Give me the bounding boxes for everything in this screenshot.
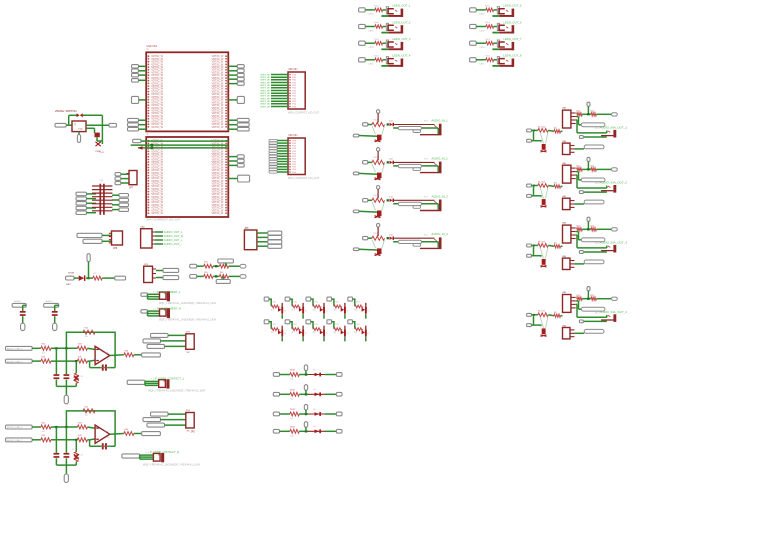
svg-text:4k7: 4k7 bbox=[313, 332, 316, 334]
svg-text:AUDIO_IN_1: AUDIO_IN_1 bbox=[431, 119, 448, 123]
svg-text:P14: P14 bbox=[595, 243, 598, 245]
svg-text:U$4/U$4: U$4/U$4 bbox=[288, 68, 298, 71]
svg-text:IC: IC bbox=[146, 48, 149, 51]
svg-text:R61K: R61K bbox=[290, 427, 296, 429]
svg-text:R2: R2 bbox=[554, 128, 556, 130]
svg-text:AUDIO_IN_4: AUDIO_IN_4 bbox=[431, 232, 448, 236]
svg-text:AUDIO_IN_2: AUDIO_IN_2 bbox=[431, 156, 448, 160]
svg-text:JP8: JP8 bbox=[113, 247, 118, 250]
svg-text:T1: T1 bbox=[540, 142, 542, 144]
svg-text:R51: R51 bbox=[294, 301, 297, 303]
svg-text:Q: Q bbox=[74, 123, 76, 126]
svg-text:R51: R51 bbox=[273, 301, 276, 303]
svg-text:JP7: JP7 bbox=[129, 187, 134, 190]
svg-text:LEDN_OUT_7: LEDN_OUT_7 bbox=[503, 37, 521, 41]
svg-text:T1: T1 bbox=[540, 326, 542, 328]
svg-text:CJRD: CJRD bbox=[368, 30, 374, 32]
svg-text:10k: 10k bbox=[290, 398, 293, 400]
svg-text:AUDIO_INA_OUT_2: AUDIO_INA_OUT_2 bbox=[600, 181, 628, 185]
svg-text:10k: 10k bbox=[85, 336, 88, 338]
svg-text:4k7: 4k7 bbox=[271, 332, 274, 334]
svg-text:CJRD: CJRD bbox=[479, 30, 485, 32]
svg-text:CJRD: CJRD bbox=[368, 64, 374, 66]
svg-text:25MHz 30PP/21: 25MHz 30PP/21 bbox=[55, 109, 77, 113]
svg-text:R51: R51 bbox=[273, 324, 276, 326]
svg-text:WGA_CONTACT_NO_OUT: WGA_CONTACT_NO_OUT bbox=[288, 177, 320, 180]
svg-text:LEDN_OUT_4: LEDN_OUT_4 bbox=[392, 54, 410, 58]
svg-text:T5: T5 bbox=[346, 310, 348, 312]
svg-text:R51: R51 bbox=[356, 301, 359, 303]
svg-text:R51: R51 bbox=[335, 301, 338, 303]
svg-text:P14: P14 bbox=[595, 128, 598, 130]
svg-text:4k7: 4k7 bbox=[354, 332, 357, 334]
svg-text:WQF_7-REV4V-A1_1ADCKMQF_7-REV4: WQF_7-REV4V-A1_1ADCKMQF_7-REV4V-A1_1A24 bbox=[159, 319, 217, 322]
svg-text:WQF_7-REV4V-A1_1ADCKMQF_7-REV4: WQF_7-REV4V-A1_1ADCKMQF_7-REV4V-A1_1A24 bbox=[148, 390, 206, 393]
svg-text:R51: R51 bbox=[335, 324, 338, 326]
svg-text:AGND1: AGND1 bbox=[46, 300, 54, 303]
svg-text:P_KNBP_MERT_1: P_KNBP_MERT_1 bbox=[157, 290, 181, 294]
svg-text:AGND1: AGND1 bbox=[14, 300, 22, 303]
svg-text:10k: 10k bbox=[290, 379, 293, 381]
svg-text:IC4A: IC4A bbox=[104, 352, 109, 355]
svg-text:T5: T5 bbox=[367, 333, 369, 335]
svg-text:4k7: 4k7 bbox=[271, 309, 274, 311]
svg-text:AUDIO_INA_OUT_3: AUDIO_INA_OUT_3 bbox=[600, 240, 628, 244]
svg-text:T5: T5 bbox=[326, 310, 328, 312]
svg-text:T5: T5 bbox=[346, 333, 348, 335]
svg-text:CJRD: CJRD bbox=[479, 64, 485, 66]
svg-text:P14: P14 bbox=[595, 312, 598, 314]
svg-text:10k: 10k bbox=[85, 415, 88, 417]
svg-text:IC: IC bbox=[146, 133, 149, 136]
svg-text:R51: R51 bbox=[315, 324, 318, 326]
svg-text:LEDN_OUT_8: LEDN_OUT_8 bbox=[503, 54, 521, 58]
svg-text:R12: R12 bbox=[591, 226, 594, 228]
svg-text:VDTXC_W: VDTXC_W bbox=[212, 212, 224, 215]
svg-text:R51: R51 bbox=[356, 324, 359, 326]
svg-text:OPA1679a: OPA1679a bbox=[101, 445, 112, 448]
svg-text:R12: R12 bbox=[591, 166, 594, 168]
svg-text:R12: R12 bbox=[591, 111, 594, 113]
svg-text:R1_P14: R1_P14 bbox=[538, 181, 545, 183]
svg-text:T1: T1 bbox=[540, 257, 542, 259]
svg-text:4k7: 4k7 bbox=[292, 309, 295, 311]
svg-text:CJRD: CJRD bbox=[479, 47, 485, 49]
svg-text:LEDN_OUT_6: LEDN_OUT_6 bbox=[503, 20, 521, 24]
svg-text:GMTR_BK: GMTR_BK bbox=[260, 82, 271, 84]
svg-text:SAA7_EXPRESS7_NO_OUT: SAA7_EXPRESS7_NO_OUT bbox=[146, 218, 180, 222]
svg-text:4k7: 4k7 bbox=[333, 332, 336, 334]
svg-text:P_KNBP_CONTACT_N: P_KNBP_CONTACT_N bbox=[150, 450, 179, 454]
svg-text:WQF_7-REV4V-A1_1ADCKMQF_7-REV4: WQF_7-REV4V-A1_1ADCKMQF_7-REV4V-A1_1A24 bbox=[143, 463, 201, 466]
svg-text:R1_P14: R1_P14 bbox=[538, 126, 545, 128]
svg-text:R2: R2 bbox=[554, 183, 556, 185]
svg-text:P_KNBP_CONTACT_1: P_KNBP_CONTACT_1 bbox=[155, 376, 184, 380]
svg-text:AUDIO_OUT_R: AUDIO_OUT_R bbox=[164, 234, 183, 238]
svg-text:R11: R11 bbox=[577, 226, 580, 228]
svg-text:AUDIO_IN_3: AUDIO_IN_3 bbox=[431, 194, 448, 198]
svg-text:VDTXC_W: VDTXC_W bbox=[151, 212, 163, 215]
svg-text:GMTR_BK: GMTR_BK bbox=[260, 90, 271, 92]
svg-text:AUDIO_LINE_2: AUDIO_LINE_2 bbox=[7, 360, 23, 363]
svg-text:GMTR_BK: GMTR_BK bbox=[260, 104, 271, 106]
svg-text:T5: T5 bbox=[367, 310, 369, 312]
svg-text:GMTR_BK: GMTR_BK bbox=[260, 74, 271, 76]
svg-text:LEDN_OUT_3: LEDN_OUT_3 bbox=[392, 37, 410, 41]
svg-text:T5: T5 bbox=[284, 333, 286, 335]
svg-text:JP5: JP5 bbox=[191, 431, 196, 434]
svg-text:R11: R11 bbox=[577, 166, 580, 168]
svg-text:T5: T5 bbox=[305, 310, 307, 312]
svg-text:4k7: 4k7 bbox=[354, 309, 357, 311]
svg-text:GMTR_BK: GMTR_BK bbox=[260, 96, 271, 98]
svg-text:GMTR_BK: GMTR_BK bbox=[260, 106, 271, 108]
svg-text:R2: R2 bbox=[554, 312, 556, 314]
svg-text:CJRD: CJRD bbox=[368, 47, 374, 49]
svg-text:P14: P14 bbox=[595, 183, 598, 185]
svg-text:AUDIO_LINE_1: AUDIO_LINE_1 bbox=[7, 426, 23, 429]
svg-text:AUDIO_INA_OUT_1: AUDIO_INA_OUT_1 bbox=[600, 125, 628, 129]
svg-text:AUDIO_OUT_+: AUDIO_OUT_+ bbox=[164, 238, 183, 242]
svg-text:10k: 10k bbox=[290, 435, 293, 437]
svg-text:AUDIO_OUT_L: AUDIO_OUT_L bbox=[164, 230, 183, 234]
svg-text:C1: C1 bbox=[72, 370, 74, 372]
svg-text:R1_P14: R1_P14 bbox=[538, 311, 545, 313]
svg-text:T5: T5 bbox=[305, 333, 307, 335]
svg-text:WQF_7-REV4V-A1_1ADCKMQF_7-REV4: WQF_7-REV4V-A1_1ADCKMQF_7-REV4V-A1_1A24 bbox=[159, 302, 217, 305]
svg-text:C12: C12 bbox=[80, 376, 83, 378]
svg-text:OPA1679a: OPA1679a bbox=[101, 367, 112, 370]
svg-text:AUDIO_INA_OUT_4: AUDIO_INA_OUT_4 bbox=[600, 310, 628, 314]
svg-text:10k: 10k bbox=[290, 418, 293, 420]
svg-text:JBK?: JBK? bbox=[66, 284, 72, 286]
svg-text:GMTR_BK: GMTR_BK bbox=[260, 88, 271, 90]
svg-text:VDTXC_W: VDTXC_W bbox=[212, 126, 224, 129]
svg-text:R11: R11 bbox=[577, 111, 580, 113]
svg-text:R2: R2 bbox=[554, 243, 556, 245]
svg-text:LEDN_OUT_2: LEDN_OUT_2 bbox=[392, 20, 410, 24]
svg-text:C1: C1 bbox=[72, 449, 74, 451]
svg-text:AUDIO_OUT_-: AUDIO_OUT_- bbox=[164, 242, 182, 246]
svg-text:R51: R51 bbox=[315, 301, 318, 303]
svg-text:GMTR_BK: GMTR_BK bbox=[260, 98, 271, 100]
svg-text:DFGR: DFGR bbox=[68, 273, 75, 275]
svg-text:4k7: 4k7 bbox=[292, 332, 295, 334]
svg-text:AUDIO_LINE_2: AUDIO_LINE_2 bbox=[7, 439, 23, 442]
svg-text:CJRD: CJRD bbox=[368, 14, 374, 16]
svg-text:R61K: R61K bbox=[290, 370, 296, 372]
svg-text:GMTR_BK: GMTR_BK bbox=[260, 80, 271, 82]
svg-text:R11: R11 bbox=[577, 295, 580, 297]
svg-text:R51: R51 bbox=[294, 324, 297, 326]
svg-text:JP6: JP6 bbox=[244, 227, 249, 230]
svg-text:C12: C12 bbox=[80, 455, 83, 457]
svg-text:R61K: R61K bbox=[290, 390, 296, 392]
svg-text:P_KNBP_MERT_N: P_KNBP_MERT_N bbox=[157, 307, 181, 311]
svg-text:LEDN_OUT_5: LEDN_OUT_5 bbox=[503, 4, 521, 8]
svg-text:CJRD: CJRD bbox=[479, 14, 485, 16]
svg-text:LEDN_OUT_1: LEDN_OUT_1 bbox=[392, 4, 410, 8]
svg-text:R61K: R61K bbox=[290, 409, 296, 411]
svg-text:C,N: C,N bbox=[100, 152, 104, 154]
svg-text:U$4/U$4: U$4/U$4 bbox=[288, 134, 298, 137]
svg-text:T1: T1 bbox=[540, 197, 542, 199]
svg-text:4k7: 4k7 bbox=[313, 309, 316, 311]
svg-text:IC4A: IC4A bbox=[104, 430, 109, 433]
svg-text:AUDIO_LINE_1: AUDIO_LINE_1 bbox=[7, 348, 23, 351]
svg-text:T5: T5 bbox=[284, 310, 286, 312]
svg-text:R1_P14: R1_P14 bbox=[538, 241, 545, 243]
svg-text:WGA_CONTACT_NO_OUT: WGA_CONTACT_NO_OUT bbox=[288, 112, 320, 115]
svg-text:XX: XX bbox=[100, 180, 104, 183]
svg-text:4k7: 4k7 bbox=[333, 309, 336, 311]
svg-text:R12: R12 bbox=[591, 295, 594, 297]
svg-text:T5: T5 bbox=[326, 333, 328, 335]
svg-text:VDTXC_W: VDTXC_W bbox=[151, 126, 163, 129]
